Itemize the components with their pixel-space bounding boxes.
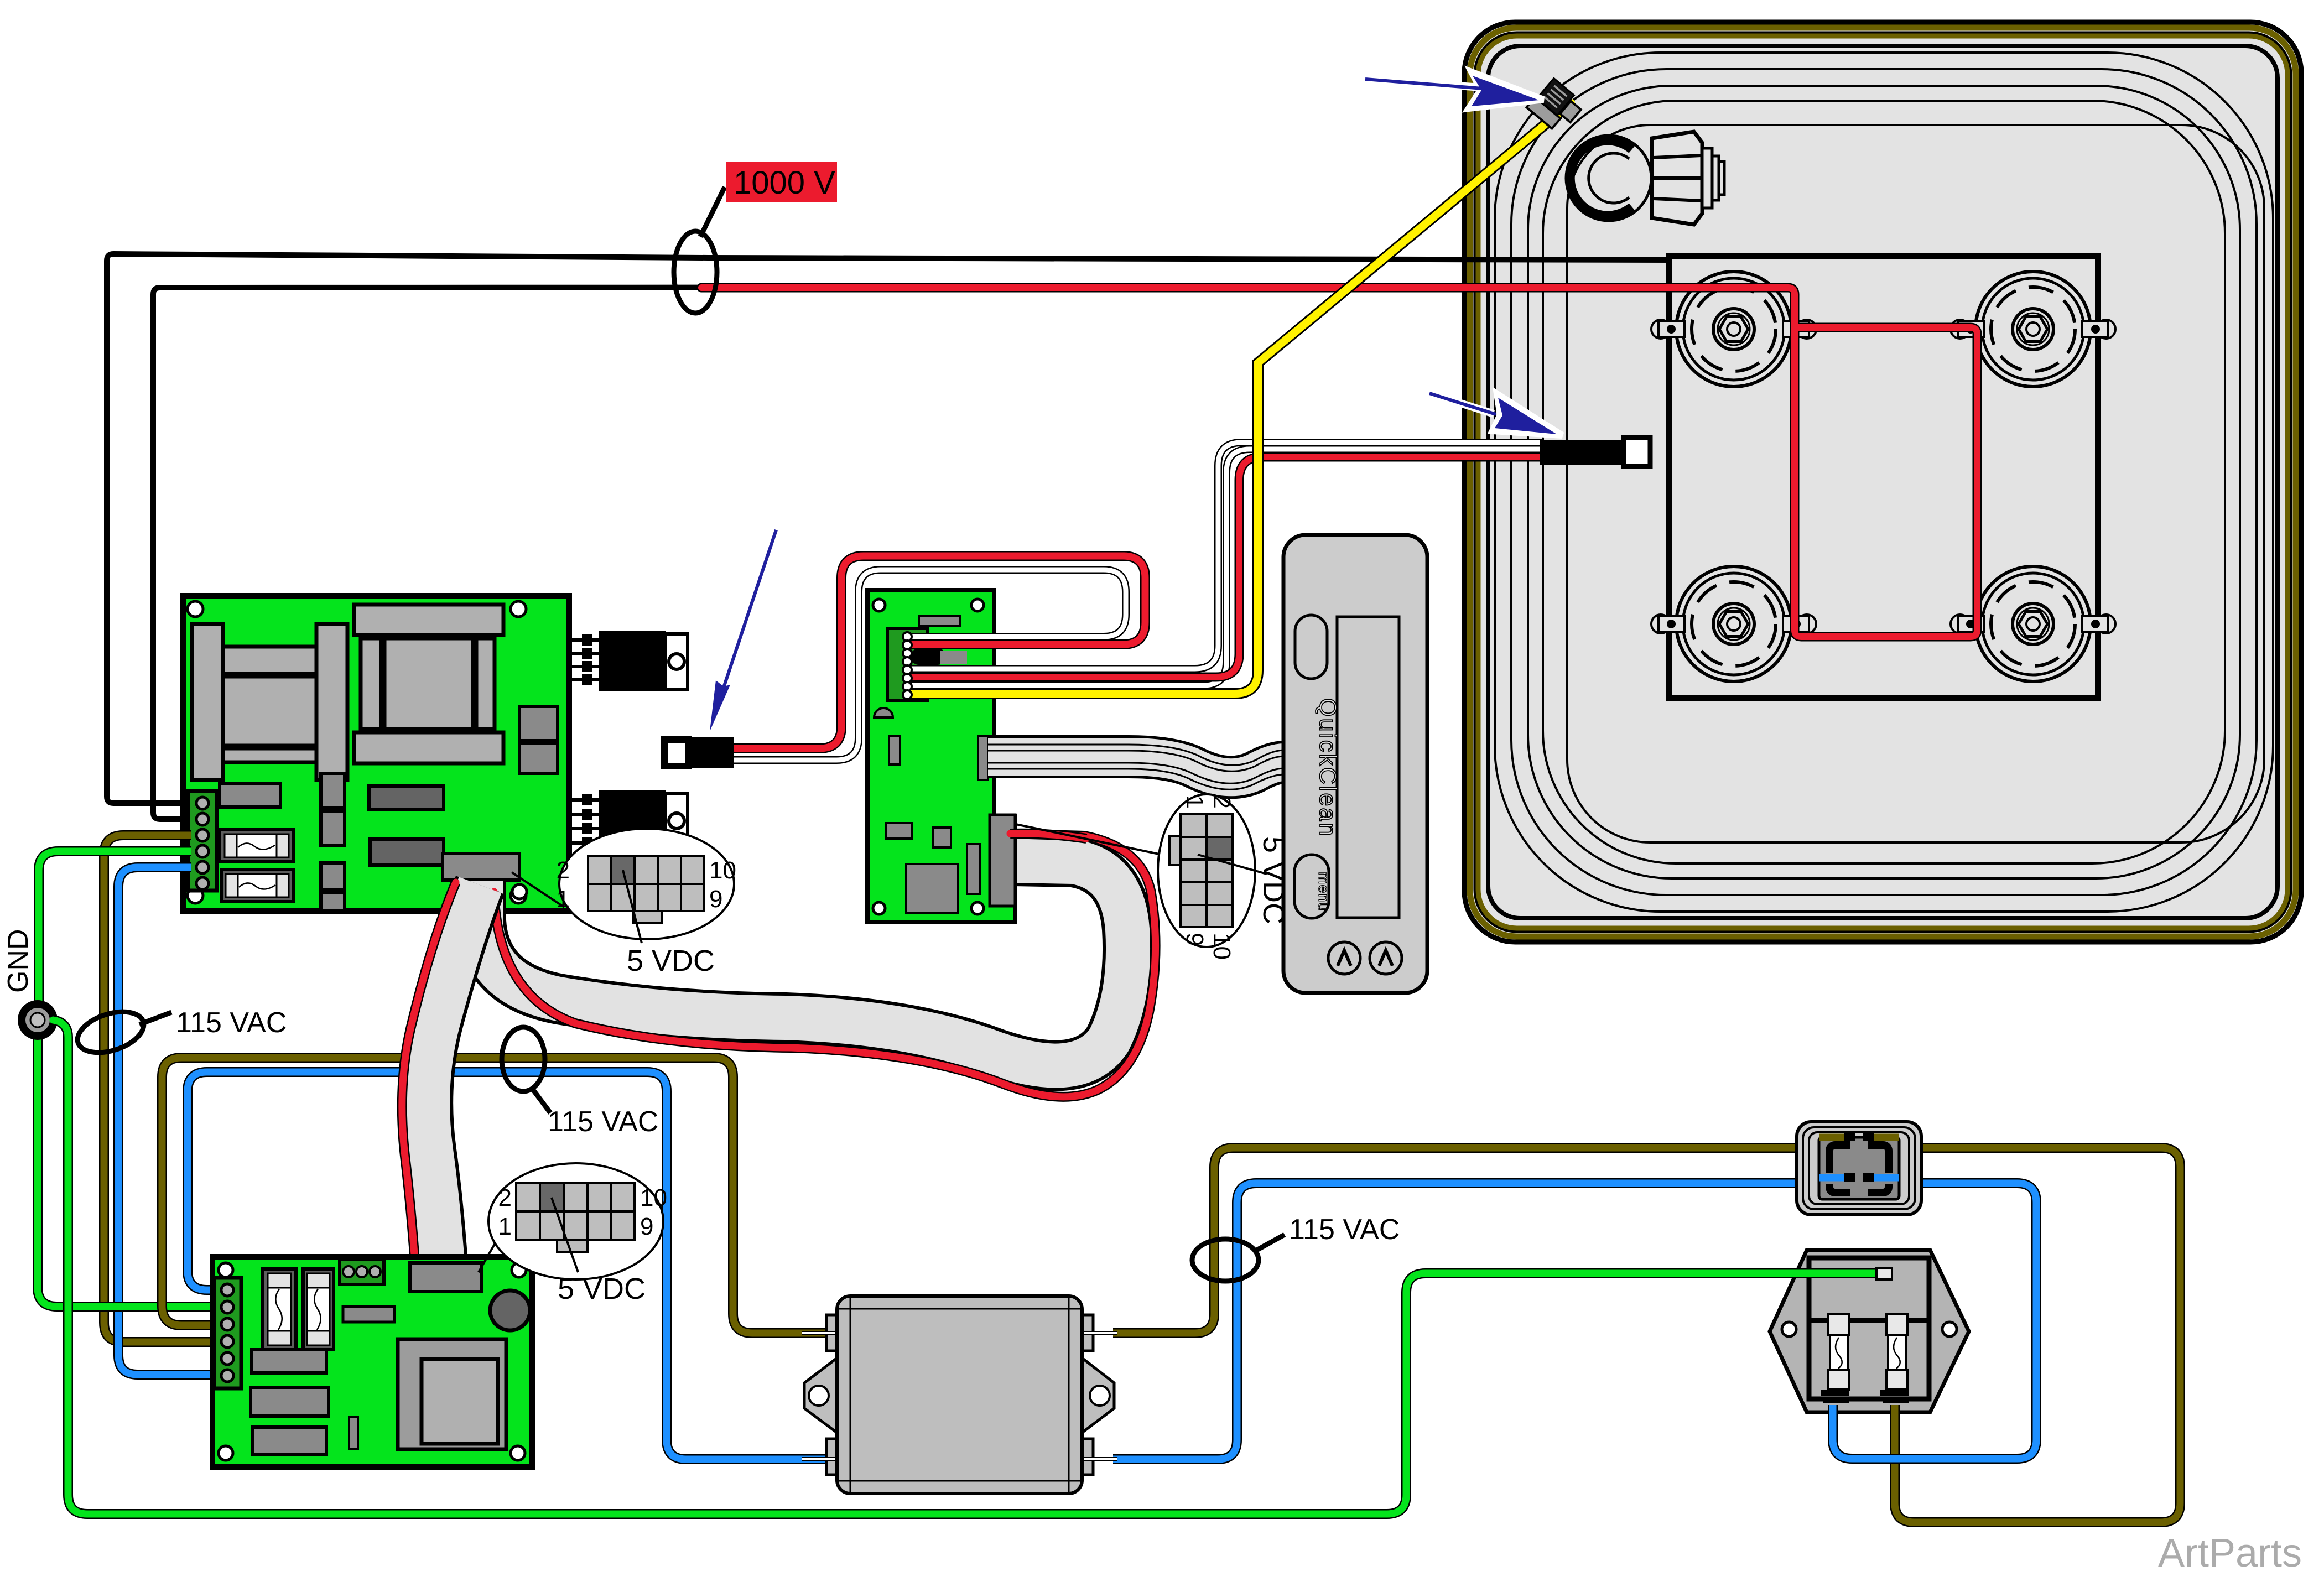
fuse FH1 — [1830, 1314, 1848, 1370]
GND bolt — [18, 1000, 58, 1040]
hole top-right — [512, 1263, 526, 1277]
arrow to thermostat — [1429, 393, 1562, 435]
label 1000 V — [726, 162, 837, 202]
TO-220 Q1 — [599, 631, 688, 691]
wire olive filter to IEC inlet to fuse holder — [1113, 1148, 2180, 1522]
wire green GND bolt to fuse holder (long bottom run, drawn over) — [53, 1020, 1892, 1514]
fuse F3 vertical — [263, 1269, 296, 1350]
wire stub blue into fuse FH1 — [1828, 1405, 1838, 1415]
hole bottom-left — [873, 902, 885, 914]
opto component — [911, 648, 967, 665]
wire red along ribbon R1 — [494, 834, 1156, 1097]
ribbon connector bottom (display PCB) — [990, 815, 1015, 906]
cable gland — [1566, 132, 1724, 225]
ribbon cable R1 (main PCB to display PCB) — [481, 861, 1128, 1065]
wire olive bottom-PCB to line filter — [162, 1058, 828, 1333]
svg-text:1: 1 — [498, 1213, 512, 1240]
thermostat on tank — [1540, 438, 1650, 466]
service connector (blue arrow target) — [664, 737, 734, 768]
chip top — [919, 616, 960, 626]
terminal block relay PCB — [214, 1278, 241, 1388]
wire red stub over connector — [1010, 834, 1086, 839]
svg-text:9: 9 — [709, 886, 722, 913]
IEC wire stubs — [1819, 1133, 1899, 1182]
header J1 — [887, 628, 927, 700]
wire blue filter to IEC inlet to fuse holder — [1113, 1183, 2036, 1459]
svg-text:10: 10 — [640, 1184, 667, 1211]
transducer top-left — [1651, 272, 1816, 387]
PCB relay board — [212, 1257, 532, 1467]
wire olive main-PCB to bottom-PCB — [104, 835, 216, 1342]
svg-text:ArtParts: ArtParts — [2158, 1531, 2302, 1575]
chips right column — [519, 706, 558, 773]
svg-text:GND: GND — [2, 929, 34, 993]
wire stub olive into fuse FH2 — [1890, 1405, 1900, 1415]
relay K1 — [252, 1350, 326, 1373]
TO-220 Q2 — [599, 790, 688, 851]
hole bottom-right — [971, 902, 984, 914]
wire blue bottom-PCB to line filter — [188, 1072, 828, 1459]
svg-text:115 VAC: 115 VAC — [548, 1106, 658, 1138]
callout 115 VAC middle — [502, 1027, 658, 1138]
wire yellow to level sensor — [913, 103, 1571, 694]
transducer mounting frame — [1669, 256, 2098, 698]
tank (ultrasonic cleaner lid, rear view) — [1464, 22, 2301, 942]
ribbon cable R3 (main PCB to bottom PCB) — [427, 885, 480, 1272]
wire blue main-PCB to bottom-PCB — [118, 867, 216, 1375]
svg-text:9: 9 — [1181, 933, 1208, 946]
fuse FH2 — [1888, 1314, 1906, 1370]
tank gasket ring 1 — [1495, 53, 2273, 912]
small bar — [889, 736, 900, 764]
svg-text:QuickClean: QuickClean — [1314, 698, 1341, 837]
relay K3 — [252, 1427, 326, 1455]
wire red 1000V to transducers — [701, 288, 1977, 637]
wire white to thermostat (upper) — [913, 443, 1543, 669]
mounting hole top-left — [188, 601, 203, 617]
transformer T2 — [354, 605, 503, 763]
svg-text:5 VDC: 5 VDC — [1257, 836, 1290, 924]
wire white to thermostat (lower) — [913, 449, 1543, 685]
svg-text:10: 10 — [1208, 933, 1235, 960]
svg-text:9: 9 — [640, 1213, 653, 1240]
svg-text:2: 2 — [1208, 795, 1235, 809]
connector to QuickClean ribbon — [978, 736, 988, 780]
svg-text:5 VDC: 5 VDC — [558, 1272, 646, 1305]
wire red along ribbon R3 — [402, 882, 456, 1278]
svg-text:10: 10 — [709, 857, 736, 884]
terminal block main PCB — [188, 791, 217, 891]
semicircle part — [874, 708, 893, 717]
tank inner wall line — [1567, 125, 2264, 842]
PCB display board — [867, 590, 1015, 922]
svg-text:115 VAC: 115 VAC — [176, 1007, 287, 1039]
callout 115 VAC left — [72, 1004, 287, 1060]
hole top-right — [971, 599, 984, 611]
mounting hole bottom-right — [511, 888, 526, 903]
svg-text:menu: menu — [1316, 872, 1332, 912]
level sensor at tank corner — [1526, 77, 1585, 135]
callout 5 VDC display PCB connector (rotated) — [1016, 794, 1290, 960]
tank gasket ring 3 — [1528, 86, 2240, 878]
svg-text:5 VDC: 5 VDC — [627, 944, 715, 977]
svg-text:2: 2 — [557, 857, 570, 884]
IC chips column center — [321, 773, 345, 911]
svg-text:2: 2 — [498, 1184, 512, 1211]
callout 5 VDC main PCB connector — [512, 829, 736, 977]
svg-text:1: 1 — [557, 886, 570, 913]
wire black outer loop — [107, 254, 1671, 803]
transformer T1 — [192, 624, 347, 780]
hole bottom-left — [219, 1446, 233, 1460]
TO-220 Q2 pins — [569, 794, 599, 849]
wire red to thermostat — [913, 457, 1543, 677]
wire green main-PCB to GND bolt — [39, 851, 191, 1001]
callout 115 VAC right — [1192, 1214, 1400, 1281]
TO-220 Q1 pins — [569, 634, 599, 685]
tank gasket ring 2 — [1511, 69, 2257, 895]
hole top-left — [219, 1263, 233, 1277]
wire red loop (pin2) to service connector — [733, 556, 1145, 748]
hole top-left — [873, 599, 885, 611]
hole near connector — [512, 884, 527, 899]
transducer top-right — [1951, 272, 2115, 387]
arrow to level sensor — [1365, 72, 1543, 108]
IC chips wide — [369, 786, 444, 865]
transducer bottom-left — [1651, 566, 1816, 681]
tank gasket ring 4 — [1543, 101, 2225, 863]
wire white loop (pin1) — [733, 570, 1126, 760]
wire black inner loop — [153, 287, 1792, 819]
fuse F1 — [220, 830, 294, 862]
svg-text:115 VAC: 115 VAC — [1289, 1214, 1400, 1246]
chips bottom — [886, 823, 980, 913]
ferrite loop callout on 1000V wire — [674, 187, 725, 313]
ribbon connector relay PCB — [410, 1263, 481, 1292]
wire ends over board — [909, 637, 1018, 694]
callout 5 VDC relay PCB connector — [479, 1163, 667, 1305]
small bar — [349, 1417, 358, 1449]
svg-text:1: 1 — [1181, 795, 1208, 809]
mounting hole top-right — [511, 601, 526, 617]
relay K2 — [251, 1387, 329, 1416]
fuse F4 vertical — [303, 1269, 334, 1350]
fuse F2 — [221, 870, 294, 902]
header pins — [903, 632, 912, 699]
PCB driver board — [183, 596, 569, 911]
3-pin connector — [340, 1260, 384, 1284]
transducer bottom-right — [1951, 566, 2115, 681]
chip small — [343, 1307, 394, 1322]
ribbon connector main PCB — [443, 854, 519, 880]
svg-text:1000 V: 1000 V — [734, 165, 835, 201]
mounting hole bottom-left — [188, 888, 203, 903]
arrow to service connector — [710, 530, 776, 731]
ribbon cable R2 (display PCB to QuickClean) — [988, 745, 1285, 789]
capacitor — [490, 1291, 530, 1330]
bar above fuse F1 — [220, 784, 280, 807]
hole bottom-right — [511, 1446, 525, 1460]
wire green GND bolt to bottom-PCB — [38, 1039, 216, 1307]
transformer T3 — [398, 1339, 506, 1449]
